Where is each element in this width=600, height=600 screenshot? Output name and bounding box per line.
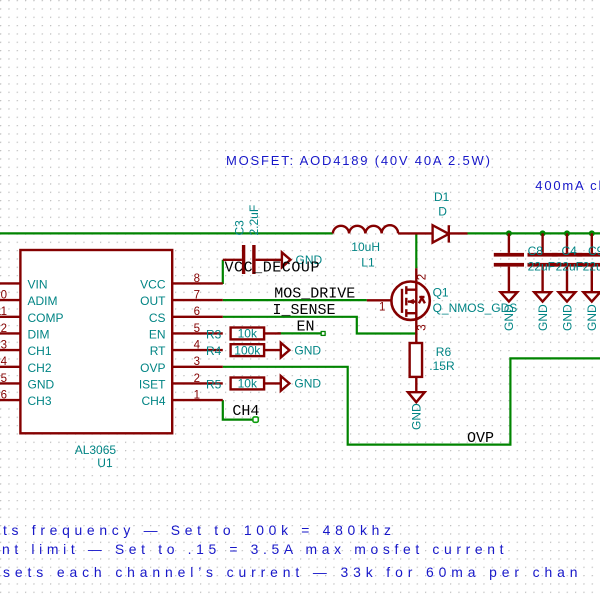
node junction 1 (506, 230, 512, 236)
svg-text:2.2uF: 2.2uF (247, 205, 261, 236)
svg-text:22uF: 22uF (556, 259, 583, 273)
svg-text:16: 16 (0, 390, 7, 402)
ground flag at R5 (281, 376, 290, 391)
svg-text:ISET: ISET (139, 377, 166, 391)
svg-text:VCC_DECOUP: VCC_DECOUP (225, 259, 321, 276)
svg-text:U1: U1 (97, 456, 113, 470)
wire EN (278, 332, 322, 334)
svg-text:nt limit — Set to .15 = 3.5A m: nt limit — Set to .15 = 3.5A max mosfet … (2, 541, 508, 557)
svg-text:CH4: CH4 (141, 394, 165, 408)
svg-text:C4: C4 (562, 244, 578, 258)
svg-text:6: 6 (194, 306, 200, 318)
svg-text:MOS_DRIVE: MOS_DRIVE (274, 286, 355, 303)
ground flag at C3 (282, 252, 291, 267)
svg-text:I_SENSE: I_SENSE (273, 302, 336, 319)
svg-text:GND: GND (585, 304, 599, 331)
ground below C10 (583, 292, 600, 301)
svg-text:EN: EN (149, 327, 166, 341)
wire U1 left pin stubs (0, 283, 20, 400)
svg-text:R4: R4 (206, 344, 222, 358)
svg-text:sets each channel’s current —: sets each channel’s current — 33k for 60… (3, 564, 582, 580)
svg-text:GND: GND (536, 304, 550, 331)
svg-text:10uH: 10uH (351, 240, 380, 254)
capacitor C8 (494, 233, 524, 292)
svg-text:CH1: CH1 (28, 344, 52, 358)
svg-text:22uF: 22uF (528, 259, 555, 273)
svg-text:2: 2 (194, 373, 200, 385)
svg-text:R3: R3 (206, 328, 222, 342)
svg-text:VIN: VIN (28, 277, 48, 291)
wire drain from rail (415, 233, 417, 268)
wire CH4 (223, 400, 254, 420)
svg-text:R5: R5 (206, 378, 222, 392)
op-amp U1 AL3065 body (20, 250, 172, 433)
svg-text:14: 14 (0, 356, 8, 368)
wire U1 right pin stubs (172, 283, 223, 400)
svg-text:1: 1 (379, 301, 385, 313)
svg-text:3: 3 (194, 356, 200, 368)
svg-text:C9: C9 (588, 244, 600, 258)
svg-text:10k: 10k (238, 327, 258, 341)
svg-text:22uF: 22uF (583, 259, 600, 273)
wire I_SENSE (223, 317, 416, 334)
resistor R5 (231, 378, 265, 390)
svg-text:ts frequency — Set to 100k = 4: ts frequency — Set to 100k = 480khz (3, 522, 396, 538)
svg-text:OVP: OVP (467, 430, 494, 447)
svg-text:400mA cha: 400mA cha (535, 178, 600, 193)
ground below R6 (408, 392, 425, 402)
wire top rail right of diode (468, 232, 600, 234)
svg-text:D1: D1 (434, 190, 450, 204)
svg-text:OUT: OUT (140, 294, 166, 308)
resistor R3 (231, 328, 265, 340)
ground below C8 (501, 292, 518, 301)
node CH4 open end (253, 417, 258, 422)
svg-text:1: 1 (194, 390, 200, 402)
svg-text:CH4: CH4 (232, 403, 259, 420)
svg-text:DIM: DIM (28, 327, 50, 341)
capacitor C10 (577, 233, 600, 292)
diode D1 (433, 225, 449, 242)
svg-text:10: 10 (0, 290, 7, 302)
svg-text:.15R: .15R (429, 359, 455, 373)
svg-text:L1: L1 (361, 255, 375, 269)
svg-text:CH3: CH3 (28, 394, 52, 408)
svg-text:C3: C3 (233, 220, 247, 236)
wire L1 to D1 red segment (398, 232, 467, 234)
node junction 3 (564, 230, 570, 236)
capacitor C9 (552, 233, 582, 292)
transistor Q1 (367, 268, 430, 343)
svg-text:COMP: COMP (28, 311, 64, 325)
svg-text:CH2: CH2 (28, 361, 52, 375)
wire MOS_DRIVE (223, 299, 367, 301)
node EN open end (321, 332, 325, 336)
capacitor C3 (223, 245, 282, 274)
svg-text:GND: GND (502, 304, 516, 331)
wire OVP (223, 358, 600, 444)
svg-text:12: 12 (0, 323, 7, 335)
svg-text:OVP: OVP (140, 361, 165, 375)
svg-text:4: 4 (194, 340, 201, 352)
svg-text:GND: GND (560, 304, 574, 331)
resistor R6 (410, 343, 422, 377)
svg-text:13: 13 (0, 340, 7, 352)
svg-text:GND: GND (410, 403, 424, 430)
svg-text:100k: 100k (234, 343, 261, 357)
resistor R4 (231, 344, 265, 356)
svg-text:EN: EN (297, 318, 315, 335)
svg-text:MOSFET: AOD4189 (40V 40A 2.5W): MOSFET: AOD4189 (40V 40A 2.5W) (226, 153, 492, 168)
wire top rail left (0, 232, 333, 234)
svg-text:R6: R6 (436, 345, 452, 359)
svg-text:7: 7 (194, 290, 200, 302)
node junction 2 (540, 230, 546, 236)
ground flag at R4 (281, 343, 290, 358)
svg-text:AL3065: AL3065 (75, 443, 117, 457)
svg-text:15: 15 (0, 373, 7, 385)
svg-text:GND: GND (294, 377, 321, 391)
svg-text:GND: GND (294, 343, 321, 357)
wire VCC vertical to C3 (222, 260, 224, 284)
svg-text:8: 8 (194, 273, 200, 285)
ground below C4 (534, 292, 551, 301)
svg-text:CS: CS (149, 311, 166, 325)
inductor L1 (333, 225, 398, 233)
svg-text:5: 5 (194, 323, 200, 335)
svg-text:D: D (438, 204, 447, 218)
svg-text:VCC: VCC (140, 277, 166, 291)
wire R6 to ground (415, 377, 417, 392)
svg-text:ADIM: ADIM (28, 294, 58, 308)
svg-text:C8: C8 (528, 244, 544, 258)
ground below C9 (559, 292, 576, 301)
svg-text:RT: RT (150, 344, 166, 358)
svg-text:2: 2 (417, 274, 429, 280)
svg-text:10k: 10k (238, 377, 258, 391)
capacitor C4 (528, 233, 558, 292)
svg-text:3: 3 (417, 324, 429, 330)
svg-text:Q1: Q1 (433, 286, 449, 300)
svg-text:11: 11 (0, 306, 7, 318)
svg-text:GND: GND (28, 377, 55, 391)
node junction 4 (589, 230, 595, 236)
